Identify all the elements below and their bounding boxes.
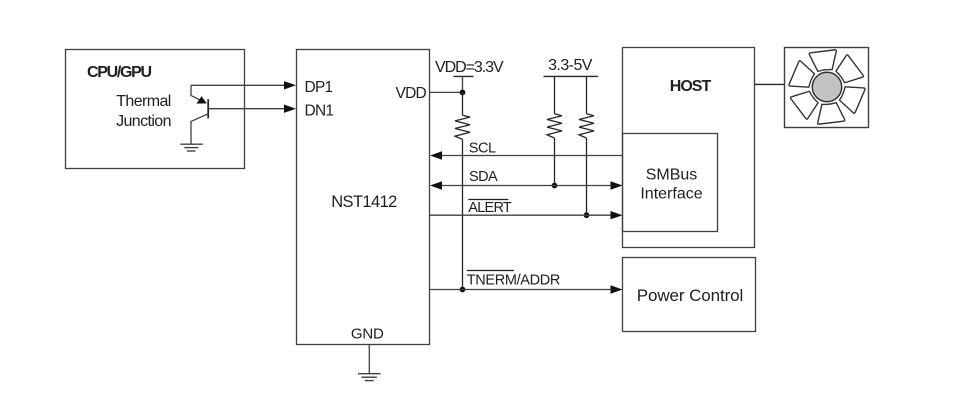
svg-text:VDD: VDD [396,85,427,102]
svg-text:Thermal: Thermal [116,93,171,110]
svg-text:3.3-5V: 3.3-5V [548,57,593,74]
Q1 collector wire [191,114,208,144]
svg-text:TNERM/ADDR: TNERM/ADDR [467,273,560,289]
ground (CPU thermal junction) [180,144,202,151]
power rail VDD=3.3V [435,59,504,92]
Q1 emitter wire with arrow [191,85,205,102]
svg-text:DP1: DP1 [305,79,333,96]
wire VDD [430,91,463,93]
wire HOST to fan [755,83,785,85]
svg-text:Power Control: Power Control [637,286,743,305]
node TNERM junction [460,287,466,293]
power rail 3.3-5V [544,57,599,76]
svg-text:ALERT: ALERT [468,200,512,216]
box HOST [623,48,755,248]
svg-text:CPU/GPU: CPU/GPU [87,64,152,81]
svg-text:VDD=3.3V: VDD=3.3V [435,59,504,76]
resistor R1 (VDD pull-up to TNERM/ADDR) [455,92,470,289]
svg-text:SCL: SCL [469,140,496,156]
svg-text:DN1: DN1 [305,102,334,119]
ground (NST1412 GND pin) [358,345,381,381]
svg-text:Interface: Interface [640,186,702,203]
wire SDA [441,185,613,187]
Q1 base bar [207,99,209,118]
svg-text:NST1412: NST1412 [331,193,397,211]
box Power Control [623,258,756,332]
wire SCL [441,155,623,157]
fan (cooling fan icon) [785,47,870,128]
resistor R2 (SDA pull-up) [547,76,562,185]
svg-text:HOST: HOST [670,78,712,95]
wire DP1 [191,84,285,86]
svg-text:Junction: Junction [116,113,171,130]
wire TNERM/ADDR [430,289,613,291]
resistor R3 (ALERT pull-up) [579,76,594,215]
svg-text:SDA: SDA [469,169,498,185]
box SMBus Interface [623,134,718,232]
node SDA junction [552,183,558,189]
node VDD junction [460,90,466,96]
svg-text:SMBus: SMBus [646,166,698,183]
wire DN1 [208,108,285,110]
transistor Q1 (thermal junction, PNP) [191,85,208,144]
IC NST1412 [297,50,430,345]
node ALERT junction [584,212,590,218]
box CPU/GPU [66,50,245,169]
svg-text:GND: GND [351,326,384,343]
wire ALERT [430,214,613,216]
